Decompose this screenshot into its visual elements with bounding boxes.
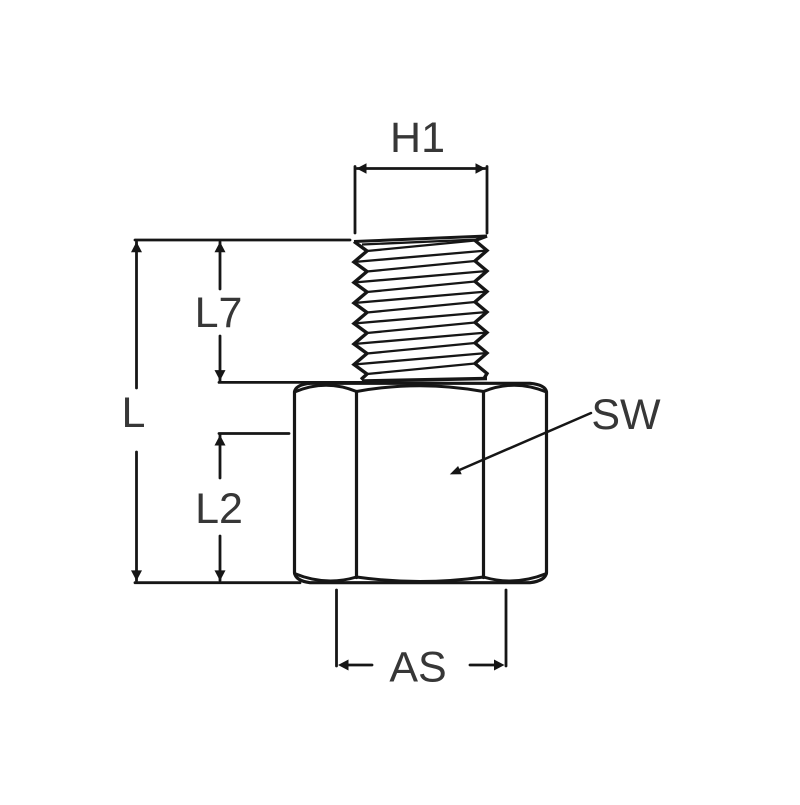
svg-text:H1: H1 bbox=[390, 114, 445, 162]
svg-text:SW: SW bbox=[591, 391, 661, 439]
svg-text:L7: L7 bbox=[195, 289, 243, 337]
svg-text:L: L bbox=[122, 389, 146, 437]
svg-text:AS: AS bbox=[389, 644, 446, 692]
svg-text:L2: L2 bbox=[195, 485, 243, 533]
